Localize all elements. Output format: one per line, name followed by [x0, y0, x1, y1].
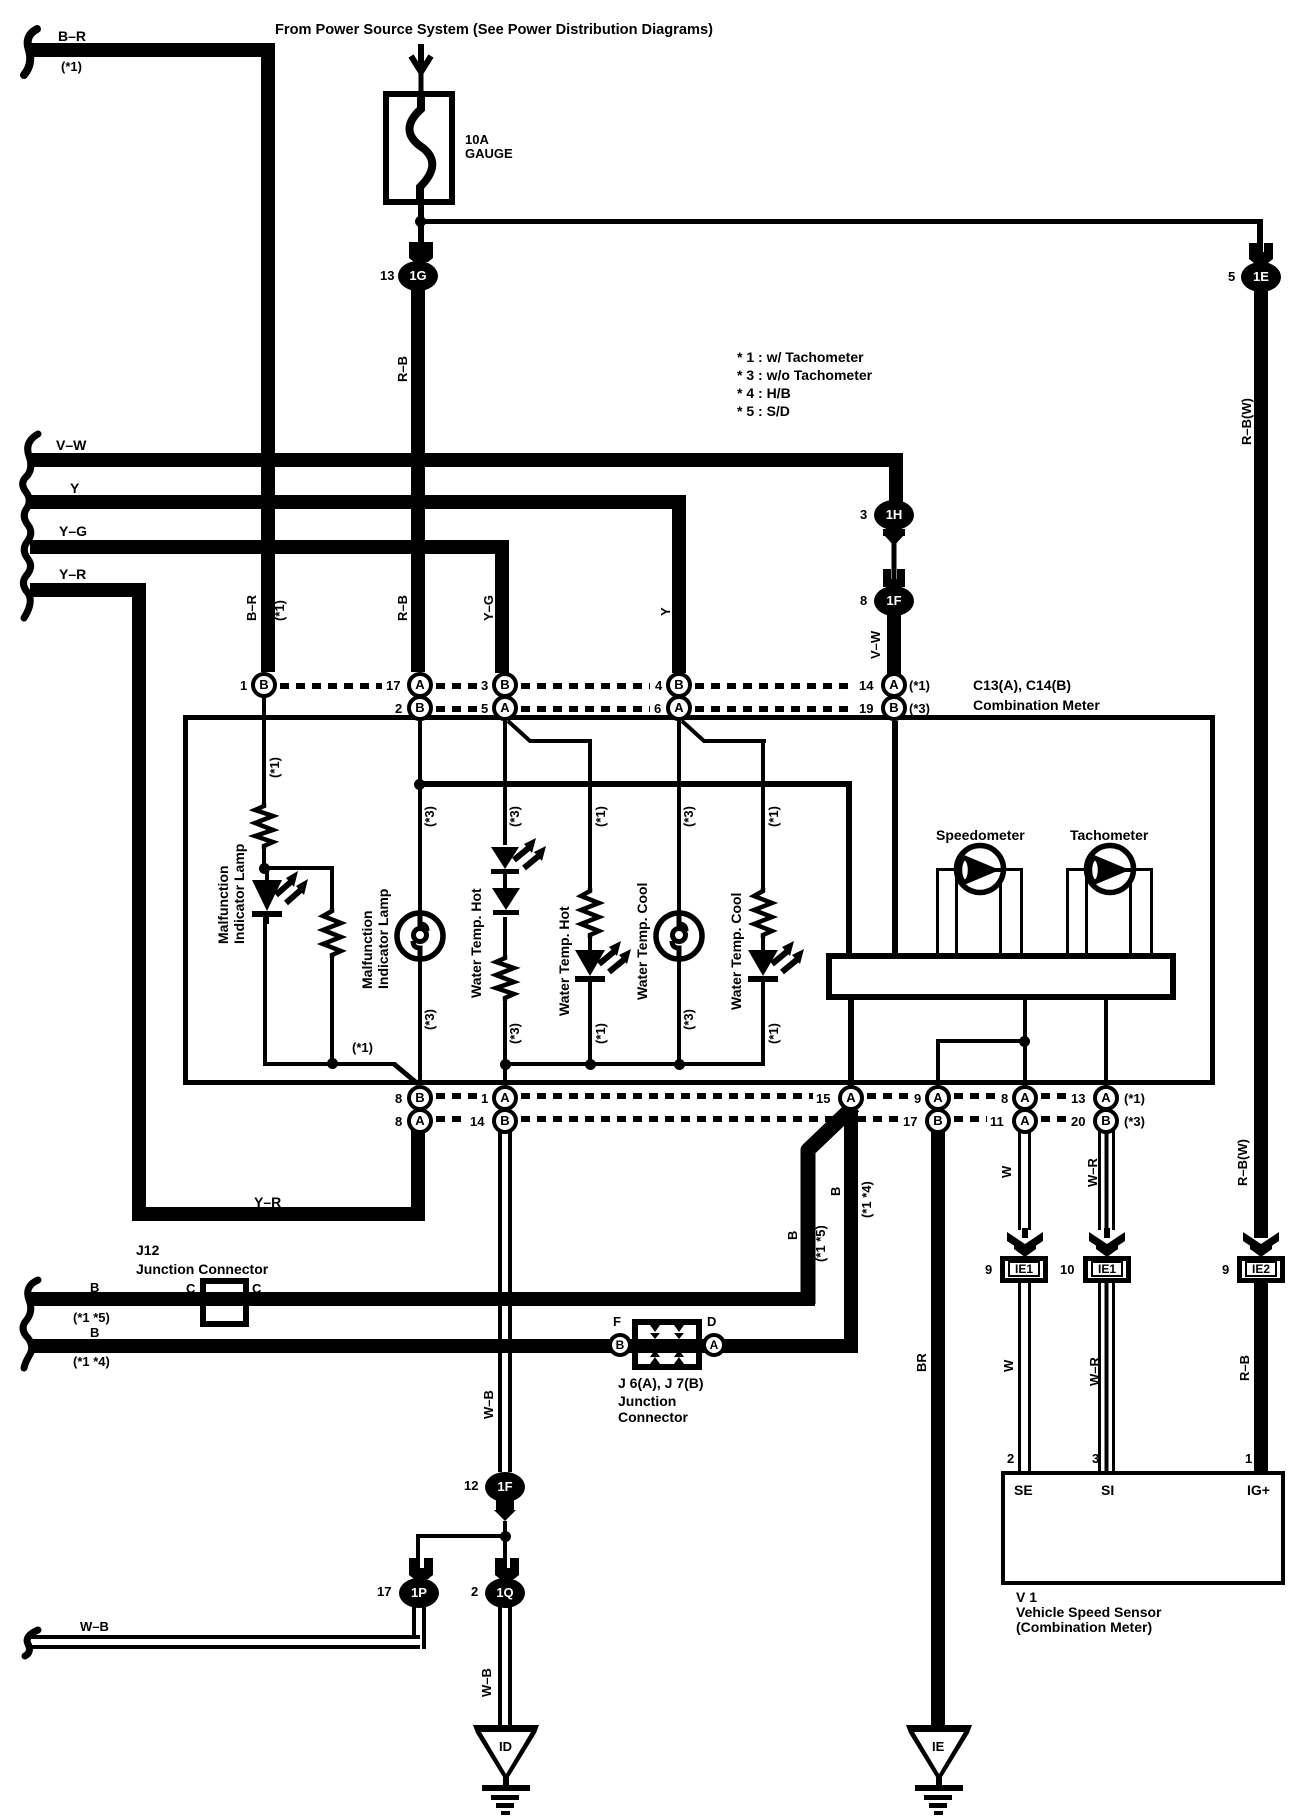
junction dot below bar — [1019, 1036, 1030, 1047]
junction dot below fuse — [415, 216, 426, 227]
diagonal to 8(B) — [394, 1062, 420, 1086]
label R-B(W) upper — [1240, 398, 1253, 445]
pin A circle — [702, 1333, 726, 1357]
wire B (*1 *5) diagonal+vertical — [796, 1100, 860, 1310]
tee wire to 9(A) — [936, 1039, 1023, 1043]
connector 8(A) — [407, 1108, 433, 1134]
junction dot parallel resistor — [327, 1058, 338, 1069]
wire B-R vertical — [261, 43, 275, 672]
wire R-B vertical — [411, 290, 425, 672]
diagonal from 5(A) — [505, 721, 595, 746]
wire LED to bus — [588, 990, 592, 1066]
fuse 10A GAUGE — [383, 91, 455, 205]
wire B (*1*4) vertical — [844, 1110, 858, 1353]
diagonal from 6(A) — [679, 721, 769, 746]
(*1) label on bus — [352, 1041, 373, 1055]
connector 17(A) — [407, 672, 433, 698]
wire down — [761, 739, 765, 888]
connector 14(B) — [492, 1108, 518, 1134]
wire resistor to dot — [262, 849, 266, 869]
interior right bus — [503, 1062, 765, 1066]
bottom connector row 2 dashes — [436, 1116, 467, 1122]
wire below fuse — [418, 205, 424, 253]
connector 19(B) — [881, 695, 907, 721]
connector 13(A) — [1093, 1085, 1119, 1111]
left brace B wires — [16, 1278, 46, 1370]
label R-B (upper) — [396, 356, 409, 382]
label 10A GAUGE — [465, 133, 513, 161]
arrow from power source — [408, 44, 434, 92]
connector 2(1Q) — [485, 1578, 525, 1608]
ground IE — [905, 1725, 975, 1817]
tachometer bracket — [1066, 868, 1153, 871]
wire W below IE1 — [1018, 1283, 1031, 1471]
label W-B vertical lower — [480, 1668, 493, 1697]
label B-R — [58, 29, 86, 43]
wire from 2(B) down — [418, 721, 422, 913]
diode water temp hot — [490, 888, 522, 918]
svg-text:ID: ID — [499, 1739, 512, 1754]
legend — [737, 348, 872, 420]
bulb water temp cool — [653, 910, 705, 962]
label V-W vertical — [869, 631, 882, 659]
J6/J7 junction connector — [632, 1319, 702, 1370]
connector 5(1E) — [1241, 262, 1281, 292]
connector 3(B) — [492, 672, 518, 698]
connector 13(1G) arrows — [408, 242, 434, 262]
top connector row 2 dashes — [436, 706, 478, 712]
wire diode to resistor — [503, 917, 507, 955]
label W-B left — [80, 1620, 109, 1634]
junction dot — [259, 863, 270, 874]
connector 20(B) — [1093, 1108, 1119, 1134]
connector 17(1P) — [399, 1578, 439, 1608]
resistor R (*1) — [254, 803, 274, 849]
wire resistor to 1(A) — [503, 1001, 507, 1085]
resistor parallel — [322, 908, 342, 958]
connector 8(1F) — [874, 586, 914, 616]
wire B (*1*5) horizontal — [30, 1292, 815, 1306]
label Malfunction Indicator Lamp (*3) — [360, 889, 391, 989]
wire bulb to bus — [677, 960, 681, 1066]
wire Y vertical — [672, 495, 686, 673]
wire down — [588, 739, 592, 888]
feed wire down to meter bar (from 2B path) — [846, 781, 852, 955]
label Y-R lower — [254, 1195, 281, 1209]
arrow below 12(1F) — [494, 1500, 516, 1522]
label Water Temp. Hot (*1) — [557, 906, 573, 1016]
label Malfunction Indicator Lamp (*1) — [216, 844, 247, 944]
label Water Temp. Cool (*3) — [635, 883, 651, 1000]
wire W-B horizontal to left edge — [30, 1635, 420, 1649]
wire B-R hook — [16, 26, 46, 78]
branch wire right from dot — [264, 866, 332, 870]
IE1 box 10 — [1083, 1256, 1131, 1283]
wire down to junction — [503, 1521, 507, 1538]
tee wire left — [416, 1534, 504, 1538]
pin B circle — [608, 1333, 632, 1357]
wire 19(B) down to meter bar — [892, 721, 898, 955]
connector 11(A) — [1012, 1108, 1038, 1134]
connector 1(B) — [251, 672, 277, 698]
parallel resistor branch — [330, 866, 334, 908]
label B (*1 *4) — [90, 1326, 99, 1340]
connector 8(B) — [407, 1085, 433, 1111]
label Speedometer — [936, 828, 1025, 842]
wire B-R horizontal (top left) — [30, 43, 275, 57]
wire from 5(A) down — [503, 721, 507, 845]
connector 4(B) — [666, 672, 692, 698]
wire W-B below 1P — [412, 1607, 426, 1649]
connector 9(A) — [925, 1085, 951, 1111]
bottom connector row 1 dashes — [436, 1093, 478, 1099]
junction dot — [414, 779, 425, 790]
connector 8b(A) — [1012, 1085, 1038, 1111]
connector 1(A) — [492, 1085, 518, 1111]
IE1 box 9 — [1000, 1256, 1048, 1283]
wire Y-R horizontal — [30, 583, 146, 597]
junction dot on bus — [585, 1059, 596, 1070]
junction dot on bus — [674, 1059, 685, 1070]
resistor — [753, 888, 773, 938]
feed wire right to meter bar — [420, 781, 852, 787]
left bundle brace — [16, 432, 46, 622]
connector 5(1E) arrows — [1248, 243, 1274, 263]
connector 14(A) — [881, 672, 907, 698]
wire Y-G horizontal — [30, 540, 509, 554]
wire Y-R bottom horizontal — [132, 1207, 425, 1221]
connector 3(1H) — [874, 500, 914, 530]
wire 8(A) down — [411, 1130, 425, 1221]
wire down to 1Q — [503, 1538, 507, 1572]
label W-B — [482, 1390, 495, 1419]
1H-1F arrows — [883, 529, 905, 587]
title — [275, 23, 713, 37]
connector 2(B) — [407, 695, 433, 721]
wire R-B(W) vertical right — [1254, 291, 1268, 1228]
hook W-B left — [18, 1628, 44, 1658]
wire from 6(A) down — [677, 721, 681, 913]
resistor — [495, 955, 515, 1001]
connector 12(1F) — [485, 1472, 525, 1502]
IE2 box — [1237, 1256, 1285, 1283]
wire V-W vertical — [889, 453, 903, 503]
tachometer icon — [1083, 842, 1137, 896]
svg-text:IE: IE — [932, 1739, 945, 1754]
LED malfunction indicator lamp — [240, 869, 320, 924]
junction dot — [500, 1531, 511, 1542]
bulb malfunction indicator lamp (*3) — [394, 910, 446, 962]
wire from 1(B) down — [262, 698, 266, 803]
wire W-B below 1Q — [498, 1607, 512, 1727]
ground ID — [472, 1725, 542, 1817]
connector 6(A) — [666, 695, 692, 721]
arrow into IE1 — [1007, 1228, 1043, 1256]
wire Y-R vertical left — [132, 583, 146, 1221]
connector 15(A) — [838, 1085, 864, 1111]
wire bar to 15(A) — [848, 1000, 854, 1086]
wire to right (to 1E) — [421, 219, 1262, 224]
label (*1) — [61, 60, 82, 74]
wire LED to bus — [761, 990, 765, 1066]
meter bar — [826, 953, 1176, 1000]
wire Y-G vertical — [495, 540, 509, 673]
interior left bus — [263, 1062, 396, 1066]
connector 17(B) — [925, 1108, 951, 1134]
wire V-W horizontal — [30, 453, 903, 467]
bowtie above 2(1Q) — [494, 1558, 520, 1579]
speedometer icon — [953, 842, 1007, 896]
rotated wire labels above row — [245, 595, 258, 621]
LED water temp cool (*1) — [734, 938, 814, 993]
label Tachometer — [1070, 828, 1148, 842]
arrow into IE2 — [1243, 1228, 1279, 1256]
combination meter box — [183, 715, 1215, 1085]
LED water temp hot — [476, 845, 556, 895]
wire V-W stub to 14(A) — [887, 614, 901, 674]
arrow into IE1#10 — [1089, 1228, 1125, 1256]
label Water Temp. Hot (*3) — [469, 888, 485, 998]
wire down to 1E — [1257, 219, 1263, 255]
resistor — [580, 888, 600, 938]
combination meter label — [973, 678, 1071, 692]
connector 13(1G) — [398, 261, 438, 291]
top connector row 1 dashes — [280, 683, 382, 689]
label J6 J7 — [618, 1376, 704, 1390]
wire bulb to 8(B) — [418, 960, 422, 1085]
junction dot on bus — [500, 1059, 511, 1070]
wire Y horizontal — [30, 495, 686, 509]
label Water Temp. Cool (*1) — [729, 893, 745, 1010]
wire B (*1*4) horizontal — [30, 1339, 858, 1353]
wire bar to 8(A)lower — [1023, 1000, 1027, 1086]
wire bar to 13(A) — [1104, 1000, 1108, 1086]
wire W-R below IE1 — [1098, 1283, 1115, 1471]
LED water temp hot (*1) — [561, 938, 641, 993]
wire R-B below IE2 — [1254, 1283, 1268, 1471]
bowtie above 17(1P) — [408, 1558, 434, 1579]
J12 junction connector — [136, 1243, 159, 1257]
wire LED down to bus — [263, 917, 267, 1065]
connector 5(A) — [492, 695, 518, 721]
label B (*1 *5) — [90, 1281, 99, 1295]
speedometer bracket — [936, 868, 1023, 871]
wire W-B double from 14(B) — [498, 1130, 512, 1472]
